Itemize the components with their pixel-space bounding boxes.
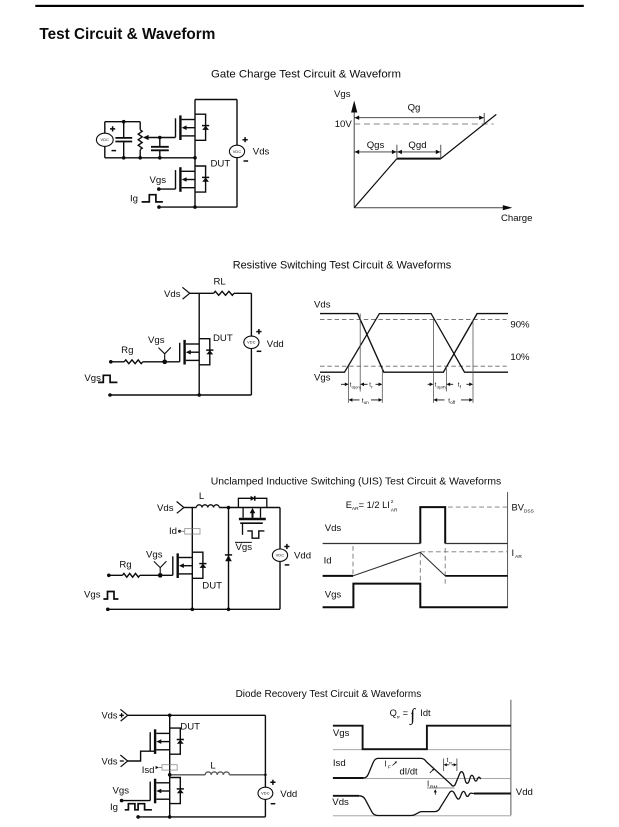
- svg-text:VDC: VDC: [276, 554, 285, 558]
- wf2 guide lines: [348, 367, 350, 403]
- V3 minus: [257, 350, 262, 352]
- wf2 t(on) arrow: [349, 398, 353, 402]
- wire: bottom return: [138, 816, 265, 818]
- wf1 Qg dimension: [354, 117, 484, 119]
- svg-text:Qgs: Qgs: [367, 140, 385, 151]
- Ig double pulse glyph: [125, 804, 152, 810]
- svg-text:10%: 10%: [510, 352, 530, 363]
- Vgs-bar overline: [235, 541, 252, 543]
- wf4 trace Isd: [333, 777, 364, 779]
- svg-text:Vgs: Vgs: [150, 175, 167, 186]
- svg-text:Test Circuit & Waveform: Test Circuit & Waveform: [39, 26, 215, 43]
- source V3 (Vdd supply): [244, 336, 259, 348]
- svg-text:F: F: [388, 764, 391, 770]
- svg-text:Vds: Vds: [157, 503, 174, 514]
- wf2 trace Vgs: [320, 314, 508, 373]
- wf2 td(on)/tr arrows: [341, 383, 345, 385]
- potentiometer R1: [138, 130, 142, 150]
- source V1 (VDC): [96, 133, 113, 146]
- svg-text:r: r: [371, 384, 373, 389]
- svg-text:d(on): d(on): [352, 384, 362, 389]
- wire: Rg to gate: [122, 573, 139, 577]
- svg-text:f: f: [460, 384, 462, 389]
- wf3 dashed verticals: [353, 546, 445, 584]
- Id sense tap: [178, 529, 200, 535]
- svg-text:Vdd: Vdd: [267, 339, 284, 350]
- svg-text:RM: RM: [430, 784, 437, 790]
- wire: left loop top: [105, 121, 140, 123]
- svg-text:Vgs: Vgs: [236, 542, 253, 553]
- source V2 (Vds supply): [229, 145, 244, 157]
- svg-text:DUT: DUT: [213, 333, 233, 344]
- svg-text:Vgs: Vgs: [333, 728, 350, 739]
- svg-text:DUT: DUT: [211, 159, 231, 170]
- svg-text:Vds: Vds: [332, 797, 349, 808]
- mosfet M3 (DUT): [180, 339, 214, 365]
- svg-text:VDC: VDC: [261, 792, 270, 796]
- svg-text:Vds: Vds: [314, 300, 331, 311]
- svg-text:BVDSS: BVDSS: [512, 503, 534, 515]
- capacitor C2: [159, 138, 161, 158]
- wf3 right boundary: [507, 492, 509, 608]
- mosfet M5 (DUT): [150, 728, 184, 754]
- svg-text:Vds: Vds: [253, 147, 270, 158]
- mosfet M2 (DUT): [176, 166, 210, 192]
- wire: left loop bottom: [105, 157, 195, 159]
- svg-text:Vgs: Vgs: [334, 89, 351, 100]
- Ig pulse glyph: [142, 195, 163, 202]
- Vgs Y-probe: [154, 561, 167, 575]
- svg-text:L: L: [199, 491, 205, 502]
- clamp gate pulse glyph: [247, 531, 264, 538]
- svg-text:Vgs: Vgs: [84, 589, 101, 600]
- wf1 y-axis: [353, 111, 355, 208]
- svg-text:Vds: Vds: [325, 523, 342, 534]
- capacitor C1: [123, 122, 125, 158]
- svg-text:Vgs: Vgs: [113, 785, 130, 796]
- svg-text:10V: 10V: [335, 119, 353, 130]
- svg-text:Vds: Vds: [101, 756, 117, 766]
- mosfet M6: [150, 778, 184, 804]
- wire: top with inductor L: [184, 507, 196, 509]
- wf1 Qgs dimension: [354, 151, 397, 153]
- svg-text:Ig: Ig: [130, 193, 138, 204]
- wire: middle branch with inductor L (gray): [170, 772, 266, 775]
- svg-text:Rg: Rg: [121, 345, 133, 356]
- svg-text:90%: 90%: [510, 319, 530, 330]
- wire: right rail Vdd: [279, 508, 281, 610]
- svg-text:Vgs: Vgs: [148, 335, 165, 346]
- svg-text:Id: Id: [324, 556, 332, 567]
- svg-text:DUT: DUT: [180, 721, 200, 732]
- svg-text:Isd: Isd: [142, 765, 155, 776]
- svg-text:2: 2: [391, 499, 394, 505]
- svg-text:Gate Charge Test Circuit & Wav: Gate Charge Test Circuit & Waveform: [211, 69, 401, 81]
- V4 minus: [285, 564, 290, 566]
- wf2 10% dashed: [320, 365, 507, 367]
- wire: Vds source rail: [236, 100, 238, 208]
- inductor L: [196, 505, 219, 508]
- svg-text:L: L: [210, 761, 216, 772]
- V3 plus: [256, 329, 261, 334]
- junction dots left loop: [122, 120, 197, 160]
- svg-text:∫: ∫: [409, 704, 416, 725]
- wf3 trace Id: [323, 575, 353, 577]
- wf2 t(off) arrow: [433, 398, 437, 402]
- Isd sense tap: [156, 765, 178, 770]
- svg-text:dI/dt: dI/dt: [400, 767, 419, 777]
- svg-text:AR: AR: [391, 508, 398, 514]
- svg-text:Unclamped Inductive Switching: Unclamped Inductive Switching (UIS) Test…: [211, 477, 501, 488]
- svg-text:on: on: [364, 400, 369, 405]
- clamp mosfet M7 (rotated): [235, 496, 267, 543]
- svg-text:d(off): d(off): [437, 384, 447, 389]
- svg-text:Vgs: Vgs: [325, 589, 342, 600]
- Vds+ chevron: [120, 709, 127, 721]
- wf2 90% dashed: [320, 318, 507, 320]
- svg-text:Vdd: Vdd: [294, 551, 311, 562]
- wf4 trace Vds: [333, 795, 359, 797]
- svg-text:Diode Recovery Test Circuit &: Diode Recovery Test Circuit & Waveforms: [236, 689, 422, 700]
- svg-text:Resistive Switching Test Circu: Resistive Switching Test Circuit & Wavef…: [233, 259, 452, 271]
- freewheel diode D3: [225, 555, 232, 561]
- top rule: [35, 5, 584, 7]
- wire: top: [128, 714, 266, 716]
- mosfet M1 (upper): [176, 114, 210, 140]
- wire: clamp branch rail: [228, 508, 230, 610]
- wf1 10V dashed level: [354, 123, 493, 125]
- svg-text:Vds: Vds: [164, 289, 181, 300]
- svg-text:EAR= 1/2 LI: EAR= 1/2 LI: [346, 500, 390, 512]
- wire: DUT drain rail: [198, 293, 200, 395]
- wire: wiper to gate of M1: [148, 137, 175, 139]
- wire: right rail (Vdd): [250, 293, 252, 395]
- svg-text:Qg: Qg: [408, 103, 421, 114]
- svg-text:Vds: Vds: [101, 711, 117, 721]
- wf2 trace Vds: [320, 314, 508, 373]
- source V4 (Vdd): [272, 549, 287, 561]
- V5 minus: [271, 803, 276, 805]
- svg-text:Vgs: Vgs: [314, 373, 331, 384]
- wire: right rail: [264, 715, 266, 817]
- svg-text:I AR: I AR: [512, 548, 523, 560]
- wire: bottom return: [108, 608, 280, 610]
- wf1 x-axis: [354, 207, 503, 209]
- svg-text:Vdd: Vdd: [516, 787, 533, 798]
- mosfet M4 (DUT): [173, 552, 207, 578]
- wire: M2 gate lead: [159, 188, 176, 190]
- V2 minus: [244, 160, 249, 162]
- wire: source V1 vertical leads: [104, 122, 106, 158]
- V1 minus sign: [112, 150, 117, 152]
- Vds input chevron: [182, 287, 189, 299]
- wf2 td(off)/tf arrows: [428, 383, 430, 385]
- svg-text:I: I: [384, 760, 386, 769]
- wf3 dashed IAR level: [420, 551, 507, 553]
- svg-text:VDC: VDC: [247, 341, 256, 345]
- wire: RL to right rail: [234, 292, 251, 294]
- svg-text:Ig: Ig: [110, 802, 118, 813]
- wf4 right boundary: [510, 700, 512, 816]
- wire: Vds- to gate M5: [128, 751, 155, 761]
- wire: bottom return: [159, 206, 237, 208]
- svg-text:VDC: VDC: [233, 150, 242, 154]
- source V5 (Vdd): [258, 787, 273, 799]
- svg-text:off: off: [450, 400, 456, 405]
- svg-text:Vgs: Vgs: [146, 550, 163, 561]
- wf3 dashed BVdss level: [448, 506, 508, 508]
- wire: DUT drain rail: [191, 508, 193, 610]
- svg-text:Idt: Idt: [420, 708, 431, 718]
- svg-text:Id: Id: [169, 526, 177, 537]
- Vgs pulse glyph: [98, 375, 117, 382]
- wire: top wire to Vds source: [195, 99, 237, 101]
- V1 plus sign: [110, 126, 115, 131]
- svg-text:Charge: Charge: [501, 213, 532, 224]
- svg-text:Qgd: Qgd: [408, 140, 426, 151]
- Vds- chevron: [120, 755, 127, 767]
- svg-text:VDC: VDC: [100, 138, 109, 142]
- wf3 trace Vgs: [323, 584, 508, 608]
- svg-text:Isd: Isd: [333, 758, 346, 769]
- Vgs pulse glyph: [103, 592, 118, 600]
- V2 plus: [243, 137, 248, 142]
- wire: M6 gate lead: [122, 800, 151, 802]
- svg-text:DUT: DUT: [202, 580, 222, 591]
- wf4 reference lines: [333, 750, 511, 816]
- V4 plus: [284, 544, 289, 549]
- svg-text:RL: RL: [213, 276, 226, 287]
- Vds chevron: [177, 502, 184, 514]
- wire: main rail: [169, 715, 171, 817]
- wf1 gate-charge curve: [354, 159, 397, 208]
- wire: bottom return: [110, 394, 251, 396]
- resistor RL: [214, 291, 234, 295]
- wire: chevron to rail / top wire: [190, 292, 214, 294]
- wf4 trr annotation: [444, 759, 457, 772]
- V5 plus: [270, 780, 275, 785]
- wf4 trace Vgs: [333, 726, 511, 750]
- R1 wiper arrow: [143, 135, 149, 140]
- svg-text:I: I: [427, 779, 429, 788]
- wf3 trace Vds: [323, 543, 421, 545]
- svg-text:Vdd: Vdd: [280, 789, 297, 800]
- wf1 Qgd dimension: [397, 151, 441, 153]
- wire: main rail M1/M2: [194, 100, 196, 208]
- svg-text:Rg: Rg: [119, 560, 131, 571]
- Vgs Y-probe: [158, 347, 171, 361]
- wire: Rg to gate: [124, 360, 143, 364]
